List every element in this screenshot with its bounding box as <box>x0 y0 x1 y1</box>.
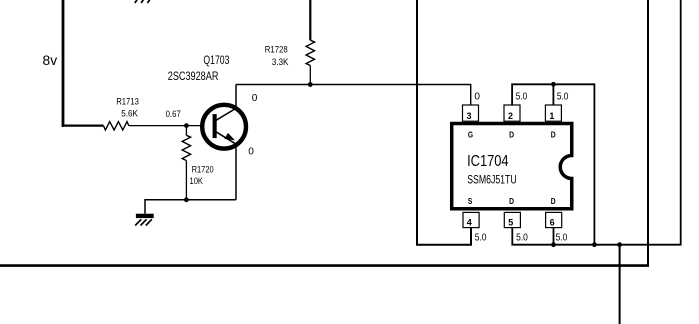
wire collector vertical <box>235 85 237 108</box>
svg-text:D: D <box>551 196 556 206</box>
pin 4 box <box>463 212 479 227</box>
resistor R1728 <box>309 0 311 40</box>
svg-text:S: S <box>468 196 473 206</box>
svg-text:R1720: R1720 <box>192 165 214 175</box>
svg-text:0: 0 <box>474 91 480 102</box>
svg-text:4: 4 <box>467 217 473 228</box>
wire top 5.0 net: pin2 up, right, down at x=594 <box>512 84 594 244</box>
svg-text:SSM6J51TU: SSM6J51TU <box>467 173 517 186</box>
pin 1 box <box>545 105 561 121</box>
svg-text:D: D <box>551 129 556 139</box>
emitter diagonal <box>215 131 236 144</box>
ground chassis symbol <box>135 214 154 226</box>
svg-text:R1728: R1728 <box>265 44 288 54</box>
emitter arrowhead <box>224 133 235 141</box>
svg-text:1: 1 <box>549 111 555 122</box>
svg-text:5.6K: 5.6K <box>121 109 138 119</box>
svg-text:IC1704: IC1704 <box>467 153 509 170</box>
wire x=648 vertical + long bottom horizontal <box>647 0 649 266</box>
svg-text:3: 3 <box>467 111 472 122</box>
svg-text:R1713: R1713 <box>116 96 139 106</box>
resistor R1713 <box>104 122 129 130</box>
transistor Q1703 <box>202 105 246 149</box>
svg-text:5.0: 5.0 <box>516 233 528 244</box>
svg-text:2: 2 <box>508 111 513 122</box>
pin 2 box <box>504 105 520 121</box>
svg-text:G: G <box>468 129 473 139</box>
pin 6 box <box>546 212 562 227</box>
ground chassis (top, cut off) <box>135 0 150 3</box>
svg-text:3.3K: 3.3K <box>272 57 289 67</box>
pin 5 box <box>504 212 520 227</box>
collector diagonal <box>215 108 236 121</box>
wire 8v rail horizontal <box>62 124 104 126</box>
wire collector net to pin 3 <box>236 85 471 106</box>
svg-text:6: 6 <box>550 217 555 228</box>
wire emitter vertical <box>235 145 237 200</box>
node junction R1720/emitter net <box>184 197 189 202</box>
svg-text:5.0: 5.0 <box>557 91 569 102</box>
wire base <box>129 125 213 127</box>
svg-text:10K: 10K <box>190 176 203 186</box>
svg-text:0: 0 <box>248 147 254 158</box>
node junction pin1/top net <box>551 82 556 87</box>
node junction base/R1720 <box>184 123 189 128</box>
svg-text:D: D <box>509 196 514 206</box>
svg-text:5.0: 5.0 <box>556 233 568 244</box>
node junction x619/bottom net <box>617 242 622 247</box>
svg-text:5.0: 5.0 <box>475 233 487 244</box>
wire bottom 5.0 net: pin5 down, right to x=681 <box>512 0 680 245</box>
wire pin 1 up <box>552 84 554 105</box>
svg-text:2SC3928AR: 2SC3928AR <box>168 70 219 83</box>
wire emitter to ground <box>145 200 236 214</box>
wire drain rail x=417 to pin 4 <box>417 0 471 245</box>
wire 8v rail vertical <box>62 0 65 127</box>
svg-text:D: D <box>509 129 514 139</box>
svg-text:5.0: 5.0 <box>516 91 528 102</box>
node junction x594/bottom net <box>592 242 597 247</box>
svg-text:0.67: 0.67 <box>166 109 181 119</box>
pin 3 box <box>463 105 479 121</box>
resistor R1720 <box>185 126 187 136</box>
svg-text:5: 5 <box>508 217 514 228</box>
wire x=619 to bottom edge <box>619 245 621 324</box>
svg-text:Q1703: Q1703 <box>203 54 229 67</box>
node junction R1728/collector net <box>308 82 313 87</box>
IC IC1704 body (SSM6J51TU) <box>452 124 572 209</box>
svg-text:0: 0 <box>252 93 258 104</box>
wire pin 6 down <box>553 228 555 245</box>
node junction pin6/bottom net <box>551 242 556 247</box>
svg-text:8v: 8v <box>43 53 58 69</box>
